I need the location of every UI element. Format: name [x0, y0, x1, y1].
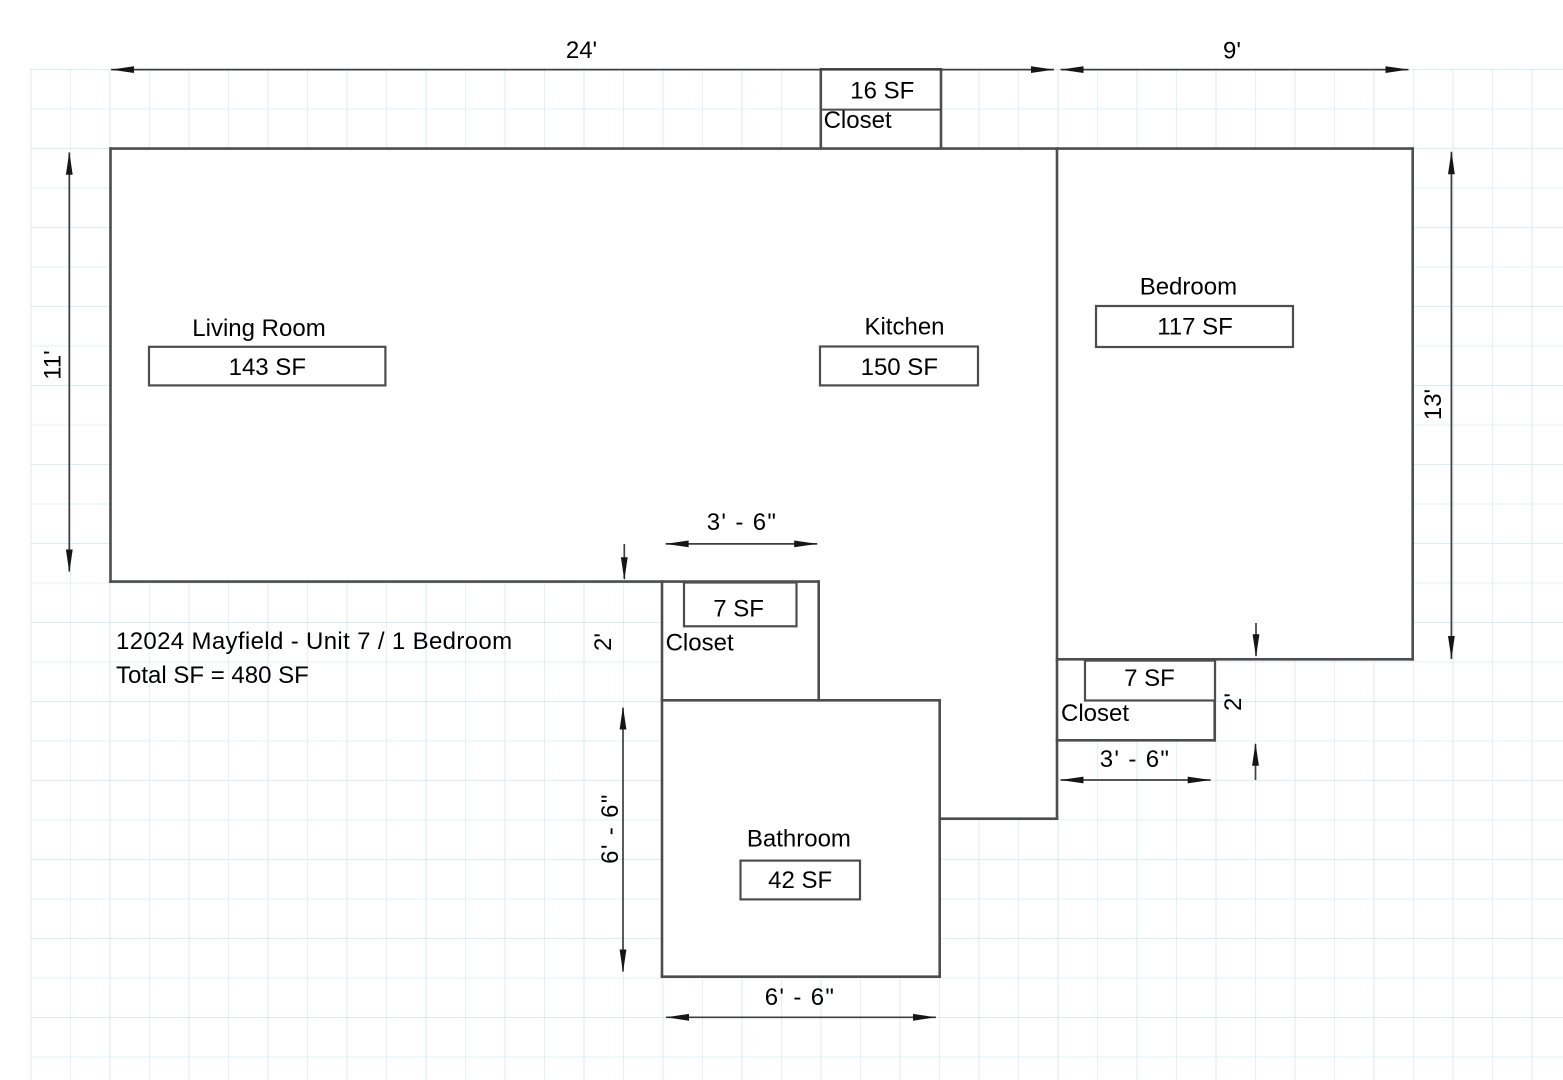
arrowheads	[66, 66, 1455, 1021]
top wall	[109, 147, 1414, 150]
closet/bathroom left wall	[661, 580, 664, 978]
dimension lines	[69, 70, 1451, 1018]
walls	[109, 68, 1414, 978]
24' right arrowhead	[1031, 66, 1054, 73]
9' left arrowhead	[1061, 66, 1084, 73]
svg-text:7 SF: 7 SF	[1124, 665, 1175, 692]
svg-text:6' - 6": 6' - 6"	[765, 984, 836, 1011]
bedroom right wall	[1411, 147, 1414, 660]
left closet SF box	[684, 583, 797, 627]
svg-text:12024 Mayfield - Unit 7 / 1 Be: 12024 Mayfield - Unit 7 / 1 Bedroom	[116, 628, 512, 655]
6'-6" left dim line	[622, 708, 624, 972]
kitchen/bedroom wall	[1056, 147, 1059, 820]
svg-text:150 SF: 150 SF	[861, 354, 938, 381]
svg-text:2': 2'	[590, 633, 617, 651]
bedroom SF box	[1096, 306, 1293, 347]
top closet left wall	[819, 68, 822, 148]
6'-6" bottom dim line	[666, 1016, 936, 1018]
6'-6" bottom left arrowhead	[666, 1014, 689, 1021]
bathroom top / closet bottom wall	[661, 699, 941, 702]
left closet right wall	[817, 580, 820, 701]
2' right lower arrow stem	[1255, 744, 1257, 780]
svg-text:11': 11'	[40, 350, 67, 380]
svg-text:13': 13'	[1420, 389, 1447, 420]
13' top arrowhead	[1448, 151, 1455, 174]
room labels	[116, 77, 1237, 894]
svg-text:Total SF = 480 SF: Total SF = 480 SF	[116, 662, 309, 689]
3'-6" left dim left arrowhead	[666, 541, 689, 548]
11' dim line	[68, 153, 70, 572]
3'-6" left dim right arrowhead	[794, 541, 817, 548]
right closet bottom wall	[1056, 739, 1216, 742]
bathroom SF box	[741, 861, 861, 900]
corridor bottom wall	[938, 817, 1058, 820]
svg-text:Closet: Closet	[824, 107, 892, 134]
svg-text:Closet: Closet	[666, 630, 734, 657]
svg-text:Bedroom: Bedroom	[1140, 273, 1237, 300]
13' bottom arrowhead	[1448, 636, 1455, 659]
11' bottom arrowhead	[66, 550, 73, 573]
svg-text:42 SF: 42 SF	[768, 867, 832, 894]
kitchen SF box	[820, 347, 978, 386]
top closet right wall	[940, 68, 943, 148]
2' right upper arrow stem	[1255, 623, 1257, 656]
svg-text:7 SF: 7 SF	[713, 596, 764, 623]
svg-text:3' - 6": 3' - 6"	[1100, 746, 1171, 773]
svg-text:117 SF: 117 SF	[1157, 314, 1233, 341]
svg-text:16 SF: 16 SF	[850, 77, 914, 104]
2' left arrow stem	[623, 544, 625, 579]
11' top arrowhead	[66, 152, 73, 175]
svg-text:143 SF: 143 SF	[229, 354, 306, 381]
svg-text:9': 9'	[1223, 37, 1241, 64]
living room SF box	[149, 347, 385, 386]
24' left arrowhead	[111, 66, 134, 73]
bathroom right wall	[938, 699, 941, 978]
SF value boxes	[149, 306, 1293, 899]
24' dim line	[111, 69, 1054, 71]
svg-text:2': 2'	[1220, 693, 1247, 711]
bathroom bottom wall	[661, 975, 941, 978]
13' dim line	[1450, 152, 1452, 659]
9' right arrowhead	[1386, 66, 1409, 73]
6'-6" left top arrowhead	[620, 707, 627, 730]
2' left down arrowhead	[621, 557, 628, 580]
3'-6" right dim line	[1061, 779, 1211, 781]
svg-text:Kitchen: Kitchen	[864, 314, 944, 341]
svg-text:Closet: Closet	[1061, 700, 1129, 727]
right closet right wall	[1213, 658, 1216, 742]
svg-text:3' - 6": 3' - 6"	[707, 509, 778, 536]
left wall	[109, 147, 112, 583]
top closet divider	[820, 109, 942, 111]
2' right lower up arrowhead	[1252, 743, 1259, 766]
bedroom bottom wall	[1056, 658, 1414, 661]
living room bottom wall	[109, 580, 820, 583]
svg-text:Living Room: Living Room	[192, 315, 325, 342]
2' right upper down arrowhead	[1253, 634, 1260, 657]
6'-6" bottom right arrowhead	[913, 1014, 936, 1021]
svg-text:Bathroom: Bathroom	[747, 826, 851, 853]
6'-6" left bottom arrowhead	[620, 950, 627, 973]
3'-6" left dim line	[666, 543, 818, 545]
svg-text:6' - 6": 6' - 6"	[597, 793, 624, 864]
3'-6" right dim right arrowhead	[1188, 777, 1211, 784]
right closet SF box	[1085, 661, 1215, 701]
top closet top wall	[820, 68, 943, 71]
svg-text:24': 24'	[566, 37, 597, 64]
9' dim line	[1061, 69, 1409, 71]
room white fills	[111, 69, 1413, 977]
3'-6" right dim left arrowhead	[1061, 777, 1084, 784]
